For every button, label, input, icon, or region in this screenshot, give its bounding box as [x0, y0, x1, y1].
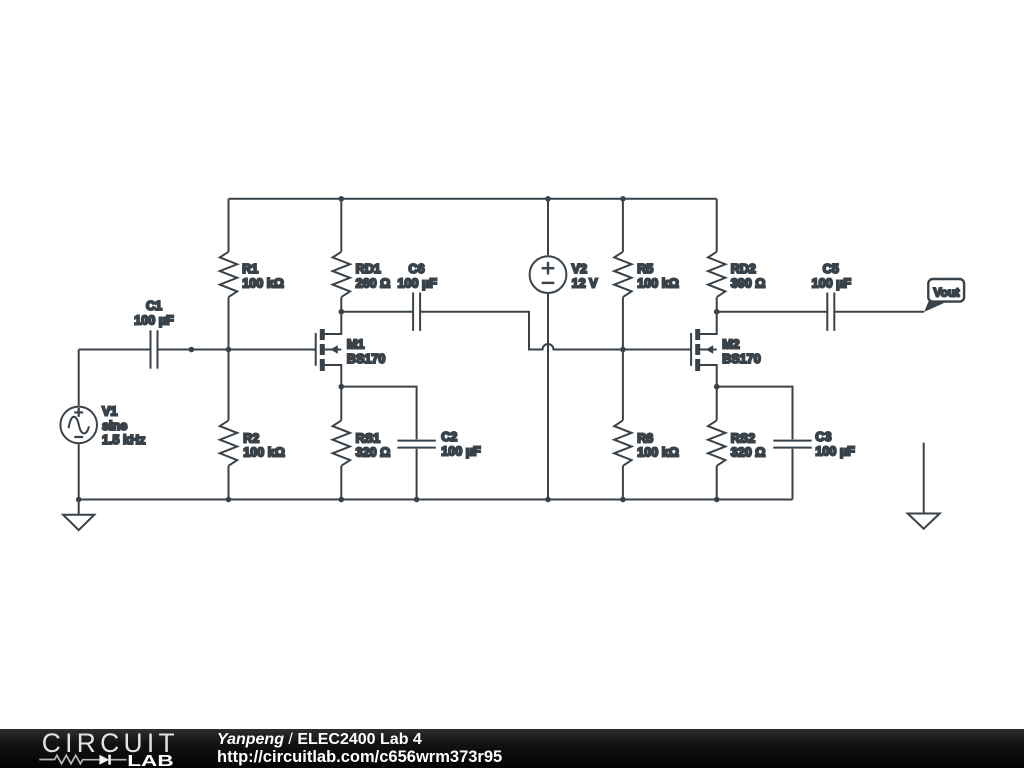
wire V1 plus to C1 row: [78, 350, 80, 406]
svg-text:LAB: LAB: [127, 753, 173, 768]
svg-text:100 kΩ: 100 kΩ: [637, 277, 679, 291]
svg-text:R2: R2: [243, 431, 259, 445]
svg-text:1.5 kHz: 1.5 kHz: [102, 433, 145, 447]
node Vout flag: [924, 279, 964, 312]
wire V1 minus to ground rail: [78, 444, 80, 499]
resistor RD2 390 &#937;: [708, 252, 765, 297]
svg-text:R1: R1: [242, 262, 258, 276]
svg-text:M2: M2: [722, 338, 740, 352]
junction ground rail / R2: [226, 497, 232, 503]
svg-text:Vout: Vout: [933, 286, 959, 300]
wire V2 minus down to ground rail: [547, 294, 549, 500]
wire R5/R6 node to M2 gate: [623, 349, 691, 351]
svg-text:320 Ω: 320 Ω: [356, 446, 391, 460]
resistor RS1 320 &#937;: [333, 420, 391, 465]
voltage source V2 12 V: [530, 256, 599, 293]
svg-text:RD1: RD1: [356, 262, 381, 276]
svg-text:V1: V1: [102, 404, 117, 418]
junction ground rail / V2: [545, 497, 551, 503]
capacitor C2 100 uF: [397, 430, 481, 458]
junction ground rail / RS1: [339, 497, 345, 503]
wire V2 top lead from rail: [547, 199, 549, 255]
wire R1 bottom to input node: [228, 297, 230, 349]
svg-text:C6: C6: [409, 262, 425, 276]
svg-text:100 kΩ: 100 kΩ: [637, 446, 679, 460]
wire input node to R2 top: [228, 350, 230, 421]
svg-text:100 µF: 100 µF: [397, 277, 437, 291]
CircuitLab logo CIRCUIT wordmark: [38, 728, 213, 768]
ground symbol left: [63, 500, 94, 531]
svg-text:BS170: BS170: [722, 352, 761, 366]
wire R5 top lead from rail: [622, 199, 624, 252]
footer caption url: [217, 749, 502, 766]
wire M2 source node to RS2 top: [716, 387, 718, 421]
junction R5 / R6 / M2 gate: [620, 347, 626, 353]
wire M1 source node to RS1 top: [340, 387, 342, 421]
transistor M1 BS170 NMOS: [316, 312, 386, 387]
wire M1 source node to C2 top: [341, 387, 416, 440]
svg-text:C3: C3: [815, 430, 831, 444]
resistor R2 100 k&#937;: [220, 420, 285, 465]
svg-text:R5: R5: [637, 262, 653, 276]
junction M1 source / RS1 / C2: [339, 384, 345, 390]
capacitor C1 100 uF: [134, 299, 174, 369]
transistor M2 BS170 NMOS: [691, 312, 761, 387]
ground symbol right: [908, 443, 940, 529]
wire R1 top lead from rail: [228, 199, 230, 252]
junction R1 / R2 / M1 gate: [226, 347, 232, 353]
svg-text:V2: V2: [572, 262, 587, 276]
wire R5 bottom to gate node: [622, 297, 624, 349]
svg-text:M1: M1: [347, 338, 365, 352]
junction top rail / R5: [620, 196, 626, 202]
wire drain node to C6 left: [341, 311, 412, 313]
wire R6 bottom to ground rail: [622, 466, 624, 500]
svg-text:R6: R6: [637, 431, 653, 445]
wire C2 bottom to ground rail: [416, 449, 418, 500]
svg-text:100 kΩ: 100 kΩ: [243, 446, 285, 460]
junction top rail / RD1: [339, 196, 345, 202]
junction ground rail / V1 / ground: [76, 497, 82, 503]
svg-text:RD2: RD2: [731, 262, 756, 276]
junction M2 source / RS2 / C3: [714, 384, 720, 390]
wire RD1 bottom to drain node: [340, 297, 342, 312]
wire C3 bottom to ground rail corner: [792, 449, 794, 500]
junction ground rail / RS2: [714, 497, 720, 503]
resistor RS2 320 &#937;: [708, 420, 765, 465]
svg-text:320 Ω: 320 Ω: [731, 446, 766, 460]
junction M2 drain / RD2 / C5: [714, 309, 720, 315]
wire C6 right with bend down and hop over V2 wire: [421, 312, 623, 350]
svg-text:C5: C5: [823, 262, 839, 276]
resistor R6 100 k&#937;: [614, 420, 679, 465]
voltage source V1 sine 1.5 kHz: [60, 404, 145, 447]
wire RS1 bottom to ground rail: [340, 466, 342, 500]
wire RS2 bottom to ground rail: [716, 466, 718, 500]
svg-text:RS2: RS2: [731, 431, 756, 445]
svg-text:sine: sine: [102, 419, 127, 433]
svg-text:100 µF: 100 µF: [815, 445, 855, 459]
svg-text:BS170: BS170: [347, 352, 386, 366]
wire C1 output to M1 gate: [158, 349, 315, 351]
wire C5 right to Vout flag: [835, 311, 924, 313]
resistor R1 100 k&#937;: [220, 252, 284, 297]
CircuitLab logo resistor-diode symbol: [39, 755, 126, 765]
junction ground rail / R6: [620, 497, 626, 503]
capacitor C3 100 uF: [773, 430, 855, 458]
footer caption author / title: [217, 732, 422, 748]
svg-text:C2: C2: [441, 430, 457, 444]
wire top supply rail: [229, 198, 717, 200]
svg-text:100 µF: 100 µF: [812, 277, 852, 291]
wire RD2 top lead from rail: [716, 199, 718, 252]
resistor R5 100 k&#937;: [614, 252, 679, 297]
svg-text:100 µF: 100 µF: [134, 314, 174, 328]
wire RD1 top lead from rail: [340, 199, 342, 252]
junction ground rail / C2: [414, 497, 420, 503]
svg-text:100 µF: 100 µF: [441, 445, 481, 459]
junction M1 drain / RD1 / C6: [339, 309, 345, 315]
svg-text:RS1: RS1: [356, 431, 381, 445]
resistor RD1 260 &#937;: [333, 252, 391, 297]
capacitor C5 100 uF: [812, 262, 852, 331]
wire RD2 bottom to M2 drain node: [716, 297, 718, 312]
wire R2 bottom to ground rail: [228, 466, 230, 500]
svg-text:C1: C1: [146, 299, 162, 313]
svg-text:12 V: 12 V: [572, 277, 599, 291]
svg-text:260 Ω: 260 Ω: [356, 277, 391, 291]
junction top rail / V2: [545, 196, 551, 202]
wire gate node to R6 top: [622, 350, 624, 421]
capacitor C6 100 uF: [397, 262, 437, 331]
wire M2 source node to C3 top: [717, 387, 793, 440]
wire bottom ground rail: [79, 499, 793, 501]
svg-text:100 kΩ: 100 kΩ: [242, 277, 284, 291]
svg-text:390 Ω: 390 Ω: [731, 277, 766, 291]
wire M2 drain node to C5 left: [717, 311, 827, 313]
wire C1 input segment: [79, 349, 150, 351]
junction C1 output wire: [189, 347, 195, 353]
